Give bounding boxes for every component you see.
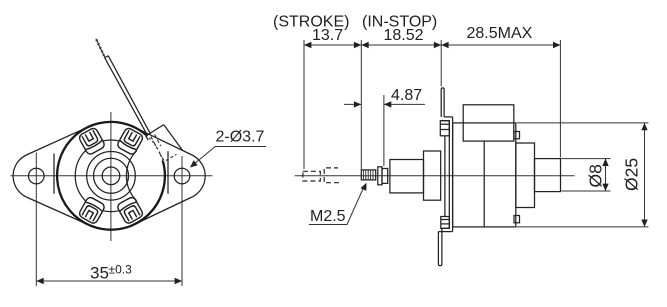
svg-text:4.87: 4.87 (391, 87, 422, 104)
svg-text:2-Ø3.7: 2-Ø3.7 (216, 129, 265, 146)
svg-text:±0.3: ±0.3 (109, 263, 133, 277)
svg-text:Ø8: Ø8 (585, 164, 605, 187)
svg-text:Ø25: Ø25 (622, 158, 642, 191)
svg-text:M2.5: M2.5 (310, 208, 346, 225)
svg-text:13.7: 13.7 (312, 27, 343, 44)
svg-text:28.5MAX: 28.5MAX (467, 25, 533, 42)
svg-text:35: 35 (90, 264, 109, 283)
svg-text:18.52: 18.52 (384, 27, 424, 44)
